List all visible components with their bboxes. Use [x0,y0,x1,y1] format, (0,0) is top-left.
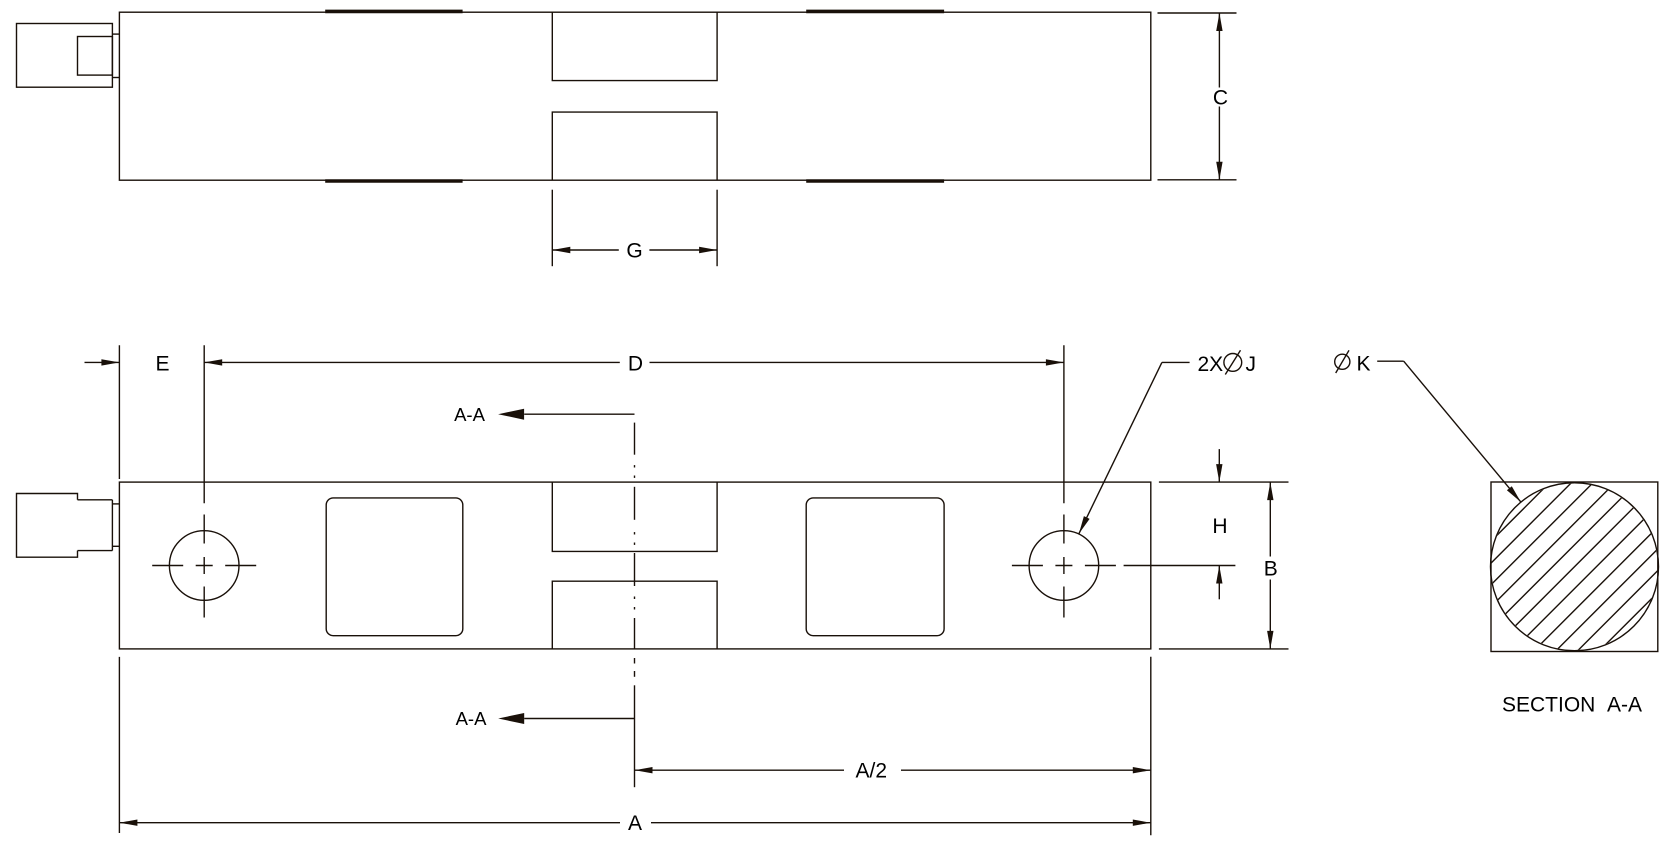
top view body outline [119,12,1150,180]
section A-A square outline [1491,482,1658,652]
dimension A line with arrows [119,820,1150,826]
svg-text:SECTION A-A: SECTION A-A [1502,694,1642,717]
front view connector stub wires [112,504,119,546]
svg-text:H: H [1212,515,1227,538]
front view lower notch [552,581,717,649]
top view pocket edge thick segment upper-right [806,10,944,14]
svg-text:D: D [628,353,643,376]
svg-text:C: C [1213,87,1228,110]
top view lower slot cutout [552,112,717,180]
svg-text:A-A: A-A [456,708,488,729]
dimension C line with arrows [1216,13,1222,180]
dimension G line with arrows [552,247,717,253]
top view pocket edge thick segment lower-left [325,179,462,183]
dimension A extension lines [119,657,1150,836]
top view connector housing [17,24,113,88]
svg-text:B: B [1264,558,1278,581]
front view upper notch [552,482,717,551]
svg-text:E: E [155,353,169,376]
section arrow A-A top [498,409,634,420]
right hole center mark [1012,515,1116,618]
label dia K [1335,350,1371,375]
dimension E-D extension lines [119,345,1064,503]
svg-text:A/2: A/2 [856,760,888,783]
dimension H centerline extension [1124,565,1236,567]
svg-text:A-A: A-A [454,404,486,425]
front view right pocket [806,498,944,636]
top view connector stub wires [112,34,119,77]
label 2X dia J [1198,350,1257,376]
dimension B extension lines [1159,482,1289,649]
svg-text:J: J [1246,353,1257,376]
svg-text:2X: 2X [1198,353,1224,376]
dimension E line with arrow [85,359,120,365]
top view upper slot cutout [552,12,717,80]
dimension D line with arrows [204,359,1064,365]
top view pocket edge thick segment lower-right [806,179,944,183]
left hole center mark [152,515,256,618]
front view left pocket [326,498,463,636]
front view connector neck [78,500,113,551]
dimension A/2 line with arrows [635,767,1151,773]
svg-text:A: A [628,812,642,835]
left mounting hole [169,531,239,601]
dimension B line with arrows [1267,482,1273,649]
top view pocket edge thick segment upper-left [325,10,462,14]
top view connector neck [78,37,113,76]
svg-text:G: G [626,240,642,263]
dimension G extension lines [552,190,717,267]
dimension H arrows [1216,449,1222,599]
leader line 2XdiaJ [1079,362,1190,533]
right mounting hole [1029,531,1099,601]
front view body outline [119,482,1150,649]
front view connector housing profile [17,494,78,558]
dimension C extension lines [1158,13,1237,180]
section arrow A-A bottom [498,713,634,724]
section cutting plane line [634,423,636,788]
svg-text:K: K [1357,353,1371,376]
section A-A bar circle with hatching [1202,430,1667,700]
leader line diaK [1377,361,1521,502]
